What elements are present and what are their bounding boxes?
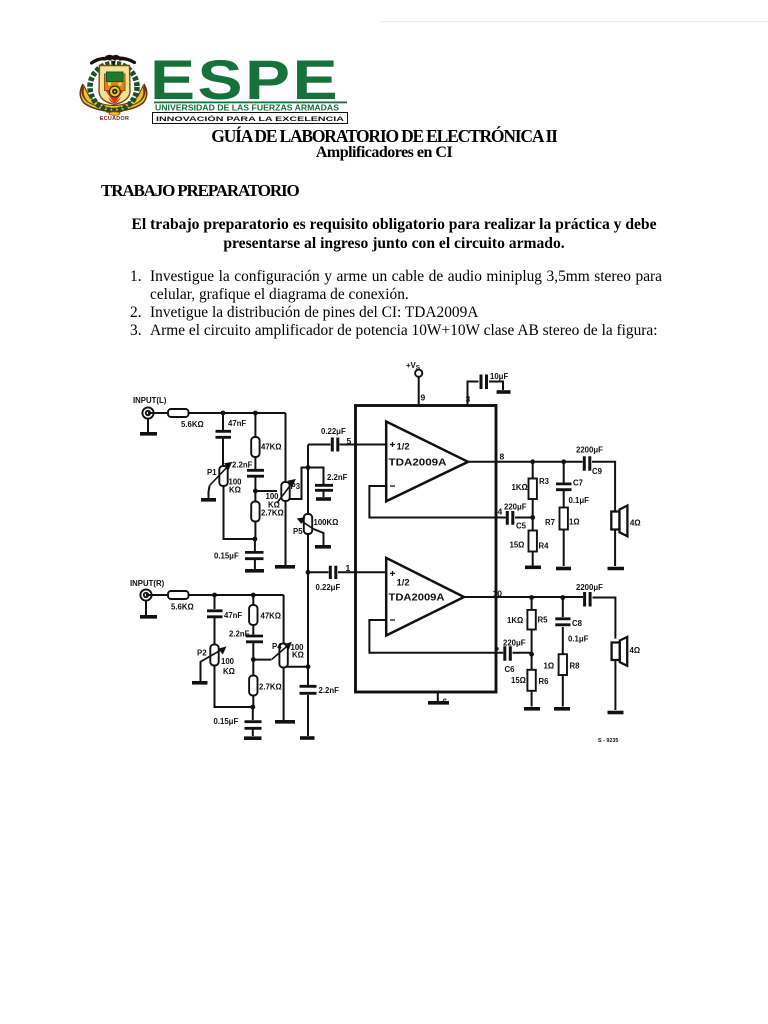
svg-text:9: 9 bbox=[421, 393, 426, 403]
svg-text:100KΩ: 100KΩ bbox=[314, 518, 339, 527]
svg-text:TDA2009A: TDA2009A bbox=[389, 593, 445, 604]
svg-text:220μF: 220μF bbox=[503, 639, 526, 648]
svg-text:R6: R6 bbox=[539, 677, 550, 686]
svg-text:INPUT(L): INPUT(L) bbox=[133, 396, 167, 405]
svg-text:R4: R4 bbox=[539, 542, 550, 551]
svg-text:4: 4 bbox=[498, 507, 503, 517]
svg-text:P4: P4 bbox=[272, 642, 282, 651]
svg-text:47nF: 47nF bbox=[224, 611, 242, 620]
svg-text:1: 1 bbox=[346, 563, 351, 573]
svg-text:5.6KΩ: 5.6KΩ bbox=[171, 603, 194, 612]
svg-text:2.7KΩ: 2.7KΩ bbox=[261, 509, 284, 518]
svg-text:2200μF: 2200μF bbox=[576, 446, 603, 455]
svg-text:2.2nF: 2.2nF bbox=[232, 461, 253, 470]
svg-text:10: 10 bbox=[493, 589, 503, 599]
svg-text:P3: P3 bbox=[291, 482, 301, 491]
svg-text:220μF: 220μF bbox=[504, 503, 527, 512]
svg-text:P2: P2 bbox=[197, 649, 207, 658]
svg-text:0.22μF: 0.22μF bbox=[321, 427, 346, 436]
svg-text:1Ω: 1Ω bbox=[544, 662, 555, 671]
svg-text:R5: R5 bbox=[538, 616, 549, 625]
svg-text:C6: C6 bbox=[505, 665, 516, 674]
svg-text:5.6KΩ: 5.6KΩ bbox=[181, 420, 204, 429]
svg-text:10μF: 10μF bbox=[490, 372, 508, 381]
svg-text:C8: C8 bbox=[572, 619, 583, 628]
svg-text:47KΩ: 47KΩ bbox=[261, 443, 282, 452]
svg-text:KΩ: KΩ bbox=[229, 486, 241, 495]
svg-text:TDA2009A: TDA2009A bbox=[389, 458, 447, 469]
svg-text:4Ω: 4Ω bbox=[630, 519, 641, 528]
svg-text:2200μF: 2200μF bbox=[576, 583, 603, 592]
svg-text:2.2nF: 2.2nF bbox=[319, 686, 340, 695]
svg-text:1Ω: 1Ω bbox=[569, 518, 580, 527]
svg-text:2: 2 bbox=[495, 645, 500, 655]
svg-text:1KΩ: 1KΩ bbox=[512, 483, 528, 492]
svg-text:R8: R8 bbox=[570, 662, 581, 671]
svg-text:1/2: 1/2 bbox=[397, 578, 410, 589]
svg-text:INPUT(R): INPUT(R) bbox=[130, 579, 165, 588]
svg-text:4Ω: 4Ω bbox=[630, 646, 641, 655]
svg-text:2.2nF: 2.2nF bbox=[229, 630, 250, 639]
svg-text:C5: C5 bbox=[516, 522, 527, 531]
svg-text:0.1μF: 0.1μF bbox=[568, 635, 589, 644]
svg-text:R3: R3 bbox=[539, 477, 550, 486]
svg-text:5: 5 bbox=[347, 436, 352, 446]
svg-text:0.1μF: 0.1μF bbox=[569, 496, 590, 505]
svg-text:100: 100 bbox=[221, 657, 235, 666]
svg-text:P1: P1 bbox=[207, 468, 217, 477]
svg-text:3: 3 bbox=[466, 394, 471, 404]
svg-text:P5: P5 bbox=[293, 527, 303, 536]
svg-text:KΩ: KΩ bbox=[223, 667, 235, 676]
svg-text:6: 6 bbox=[443, 697, 448, 707]
svg-text:2.7KΩ: 2.7KΩ bbox=[259, 683, 282, 692]
svg-text:8: 8 bbox=[500, 452, 505, 462]
svg-text:47KΩ: 47KΩ bbox=[261, 612, 282, 621]
svg-text:S - 9235: S - 9235 bbox=[598, 738, 618, 744]
svg-text:1/2: 1/2 bbox=[397, 442, 410, 453]
svg-text:C7: C7 bbox=[573, 479, 583, 488]
svg-text:0.15μF: 0.15μF bbox=[214, 552, 239, 561]
svg-text:2.2nF: 2.2nF bbox=[327, 473, 348, 482]
svg-text:0.15μF: 0.15μF bbox=[214, 717, 239, 726]
svg-text:15Ω: 15Ω bbox=[510, 541, 525, 550]
svg-text:15Ω: 15Ω bbox=[511, 676, 526, 685]
svg-text:C9: C9 bbox=[592, 467, 603, 476]
svg-text:47nF: 47nF bbox=[228, 419, 246, 428]
svg-text:1KΩ: 1KΩ bbox=[507, 616, 523, 625]
svg-text:+VS: +VS bbox=[406, 361, 421, 372]
svg-text:KΩ: KΩ bbox=[292, 651, 304, 660]
svg-text:R7: R7 bbox=[545, 518, 555, 527]
svg-text:0.22μF: 0.22μF bbox=[316, 583, 341, 592]
